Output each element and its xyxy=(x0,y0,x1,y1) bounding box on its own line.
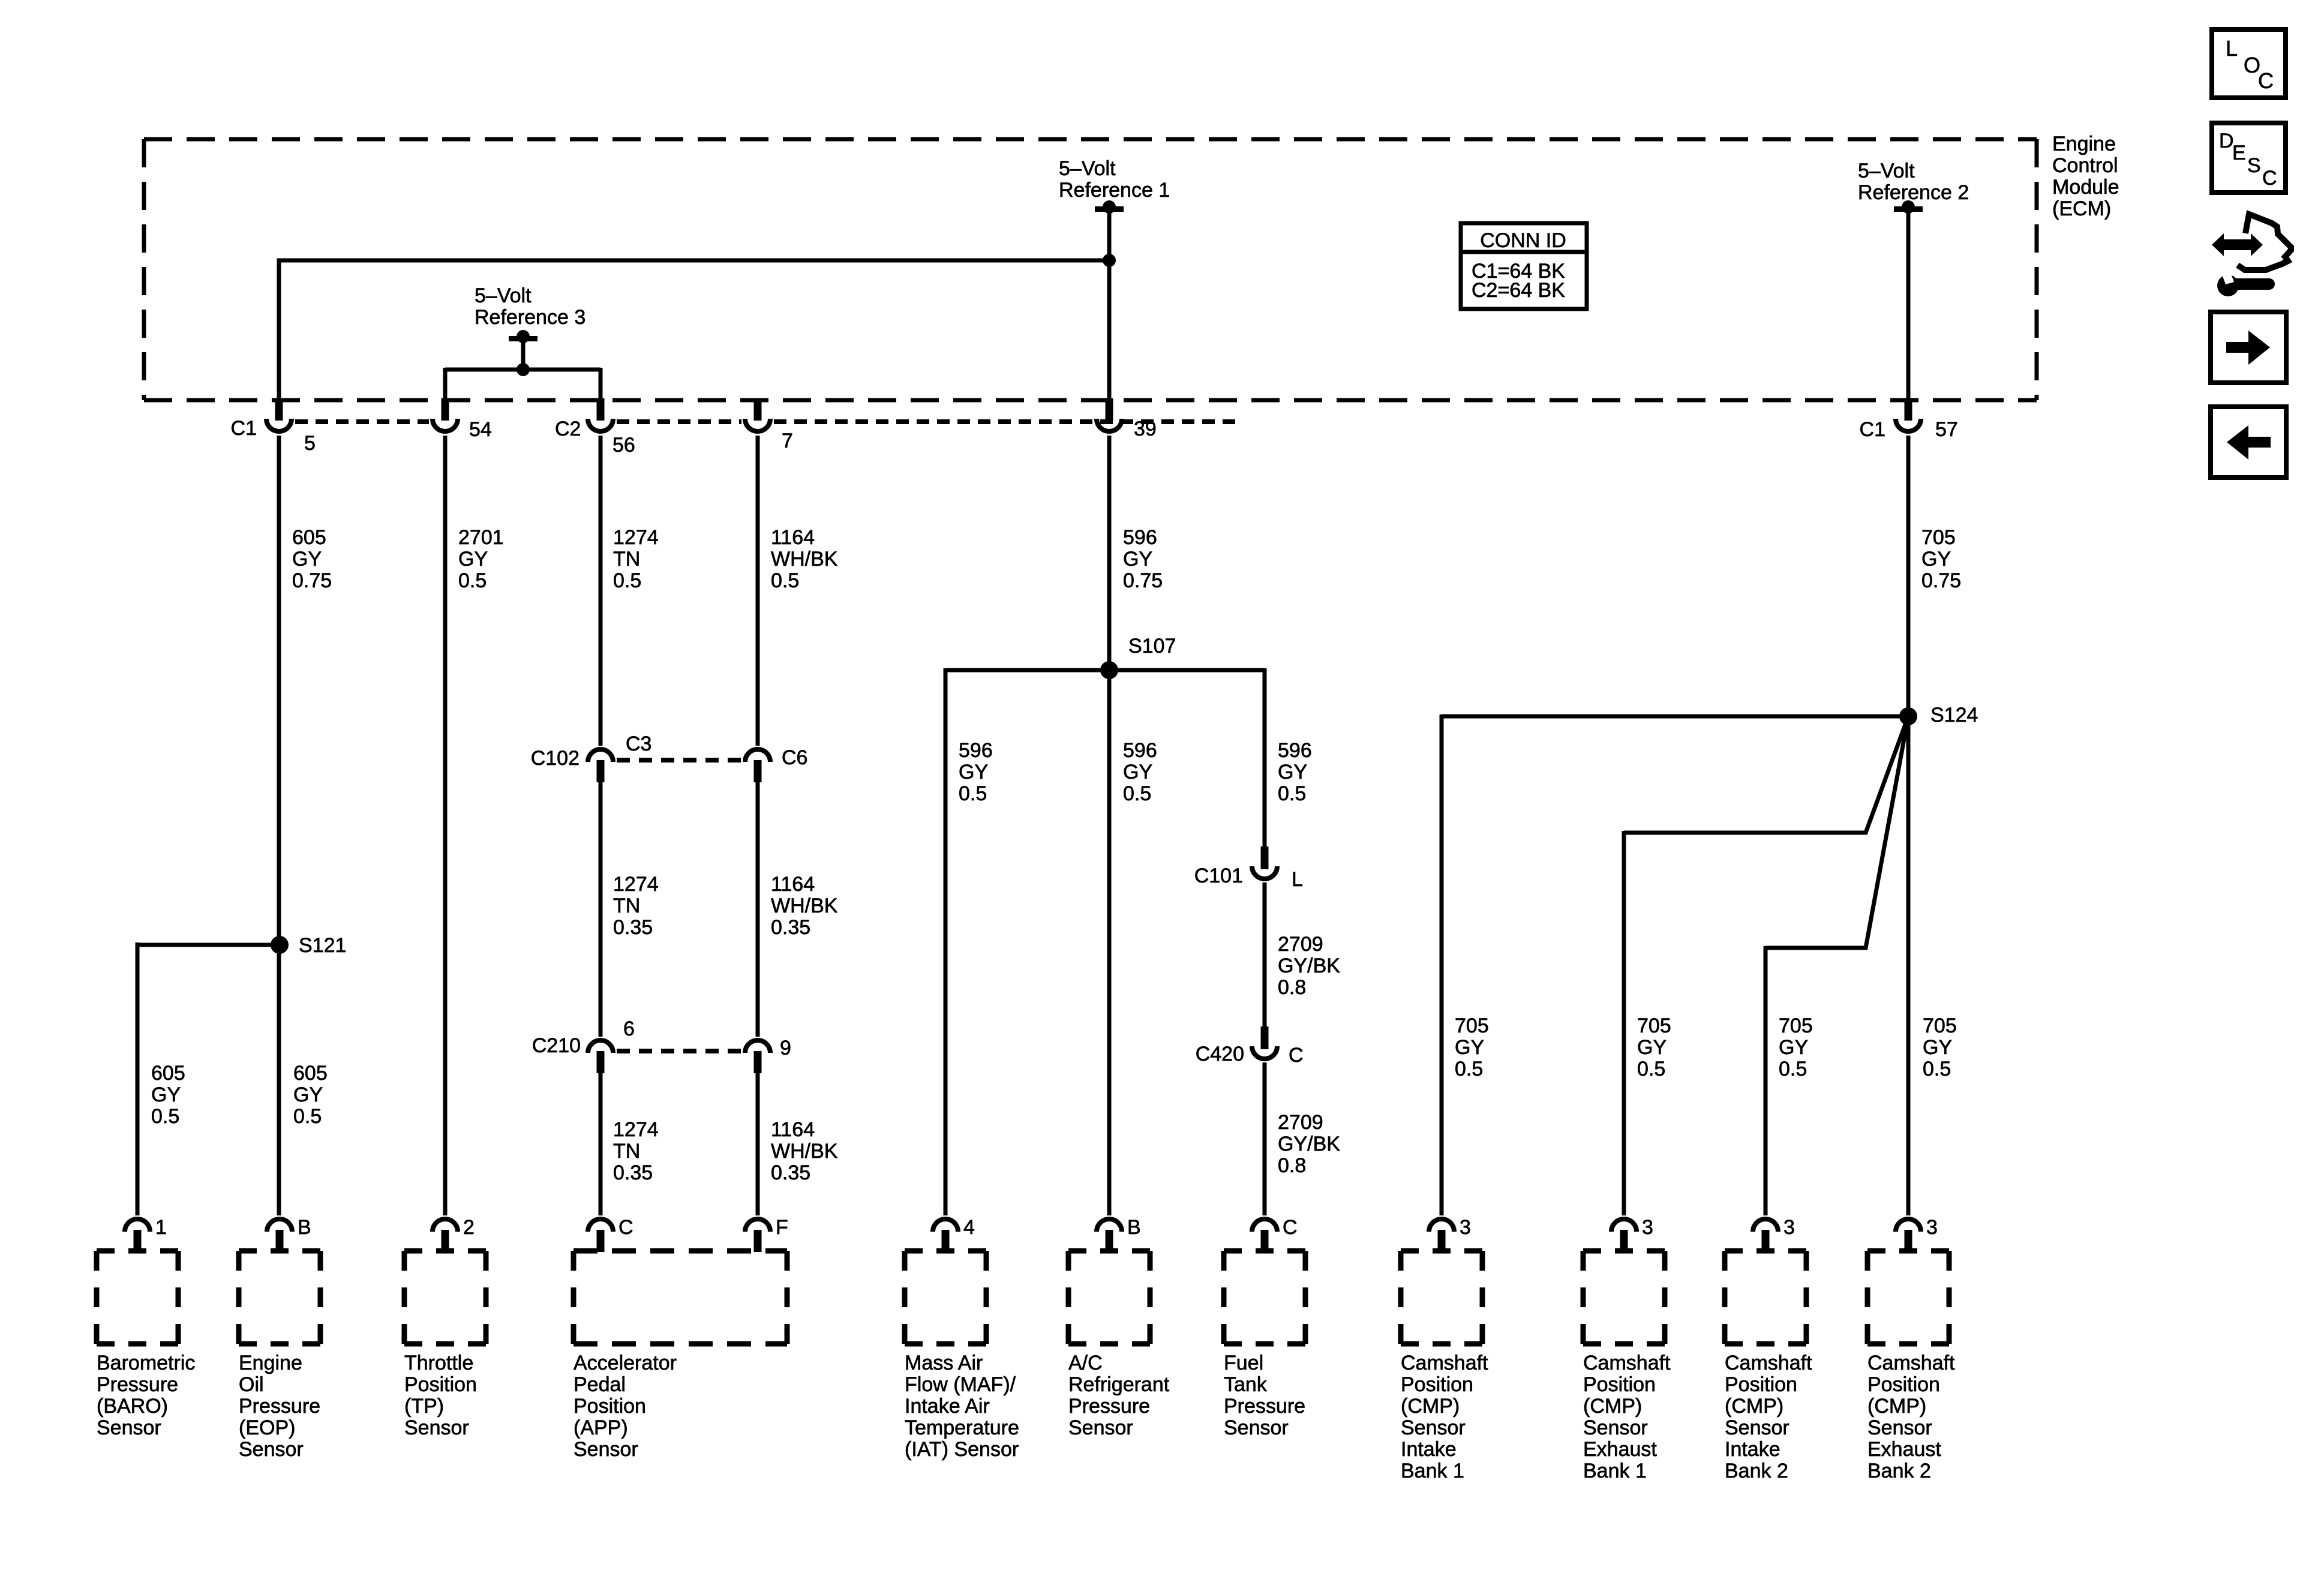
svg-text:Position: Position xyxy=(1867,1373,1940,1396)
svg-text:GY/BK: GY/BK xyxy=(1278,1133,1340,1155)
svg-text:Sensor: Sensor xyxy=(574,1438,638,1461)
svg-text:Sensor: Sensor xyxy=(1583,1416,1648,1439)
node junction at Ref3 xyxy=(517,363,530,376)
svg-text:0.5: 0.5 xyxy=(613,569,641,592)
sensor pin B at x=466 (dome+stub) xyxy=(267,1219,292,1252)
label C (C420 pin) xyxy=(1289,1044,1304,1067)
svg-text:D: D xyxy=(2219,130,2234,152)
pin label C xyxy=(618,1216,633,1239)
wire label 1164 WH/BK 0.35 (mid) xyxy=(771,873,838,939)
sensor pin 2 at x=742 (dome+stub) xyxy=(433,1219,458,1252)
svg-text:3: 3 xyxy=(1460,1216,1471,1239)
svg-text:(CMP): (CMP) xyxy=(1725,1395,1783,1418)
icon DESC box xyxy=(2212,123,2286,193)
svg-text:Camshaft: Camshaft xyxy=(1725,1352,1812,1374)
svg-text:Intake: Intake xyxy=(1401,1438,1457,1461)
svg-text:0.35: 0.35 xyxy=(771,916,810,939)
svg-text:1274: 1274 xyxy=(613,873,659,896)
caption APP xyxy=(574,1352,677,1461)
svg-text:Pressure: Pressure xyxy=(97,1373,178,1396)
CMP Sensor Intake Bank 1 box xyxy=(1401,1251,1482,1344)
icon forward arrow box xyxy=(2211,312,2286,383)
svg-text:(APP): (APP) xyxy=(574,1416,628,1439)
wire label 705 GY 0.5 (I1) xyxy=(1455,1014,1489,1080)
connector C210/6 (dome+stub) xyxy=(588,1040,613,1073)
svg-text:0.8: 0.8 xyxy=(1278,976,1306,999)
svg-text:C3: C3 xyxy=(626,733,651,755)
svg-text:Sensor: Sensor xyxy=(1068,1416,1133,1439)
sensor pin C at x=2108 (dome+stub) xyxy=(1252,1219,1277,1252)
svg-text:0.5: 0.5 xyxy=(771,569,799,592)
svg-text:4: 4 xyxy=(963,1216,975,1239)
svg-text:705: 705 xyxy=(1923,1014,1957,1037)
svg-text:Intake Air: Intake Air xyxy=(905,1395,990,1418)
splice S107 xyxy=(1100,661,1118,679)
svg-text:Camshaft: Camshaft xyxy=(1401,1352,1488,1374)
svg-text:Bank 2: Bank 2 xyxy=(1725,1460,1788,1482)
wire S124 branch CMP intake bank2 xyxy=(1765,716,1908,1215)
svg-text:0.5: 0.5 xyxy=(1923,1058,1951,1080)
label 9 xyxy=(780,1037,791,1059)
Accelerator Pedal Position (APP) Sensor box xyxy=(574,1251,787,1344)
svg-text:596: 596 xyxy=(1123,526,1157,549)
label C101 xyxy=(1194,864,1243,887)
wire label 596 GY 0.75 xyxy=(1123,526,1163,592)
sensor pin 3 at x=3181 (dome+stub) xyxy=(1896,1219,1921,1252)
wire APP-C from pin 56 xyxy=(599,436,603,746)
wire label 605 GY 0.5 (BARO) xyxy=(151,1062,185,1128)
wire Ref3 horizontal xyxy=(445,368,600,400)
wire label 605 GY 0.75 xyxy=(292,526,332,592)
node junction at Ref1 xyxy=(1103,254,1116,267)
pin label C1 (left) xyxy=(231,417,257,440)
svg-text:0.5: 0.5 xyxy=(1455,1058,1483,1080)
svg-text:Accelerator: Accelerator xyxy=(574,1352,677,1374)
ECM connector pin 54 (stub+arc) xyxy=(433,398,458,431)
CMP Sensor Exhaust Bank 1 box xyxy=(1583,1251,1665,1344)
caption CMP E1 xyxy=(1583,1352,1671,1482)
svg-text:Sensor: Sensor xyxy=(1224,1416,1289,1439)
5-Volt Reference 3 symbol xyxy=(509,330,538,343)
connector C420 (stub+cup) xyxy=(1252,1026,1277,1059)
pin label 3 xyxy=(1926,1216,1938,1239)
pin number 7 xyxy=(782,430,793,452)
svg-text:GY: GY xyxy=(151,1083,181,1106)
svg-text:705: 705 xyxy=(1637,1014,1671,1037)
svg-text:705: 705 xyxy=(1779,1014,1813,1037)
icon harness outline xyxy=(2238,214,2291,270)
wire 5-Volt Ref 3 vertical xyxy=(521,340,526,370)
thin dashed connector line C1 xyxy=(295,419,1236,424)
svg-text:TN: TN xyxy=(613,894,640,917)
label C420 xyxy=(1196,1043,1244,1065)
svg-text:GY: GY xyxy=(1637,1036,1667,1059)
svg-text:Sensor: Sensor xyxy=(239,1438,304,1461)
pin label 3 xyxy=(1460,1216,1471,1239)
svg-text:0.5: 0.5 xyxy=(1278,782,1306,805)
svg-text:S: S xyxy=(2247,154,2261,177)
wire APP-C lower xyxy=(599,1071,603,1215)
svg-text:0.8: 0.8 xyxy=(1278,1154,1306,1177)
svg-text:596: 596 xyxy=(959,739,993,762)
svg-text:54: 54 xyxy=(469,418,492,441)
svg-text:TN: TN xyxy=(613,548,640,571)
svg-text:0.5: 0.5 xyxy=(1637,1058,1665,1080)
svg-text:Reference 3: Reference 3 xyxy=(475,306,585,329)
svg-text:Position: Position xyxy=(1583,1373,1656,1396)
ECM connector pin 57 (stub+arc) xyxy=(1896,398,1921,431)
connector C101 (stub+cup) xyxy=(1252,846,1277,879)
svg-text:Camshaft: Camshaft xyxy=(1583,1352,1671,1374)
A/C Refrigerant Pressure Sensor box xyxy=(1068,1251,1150,1344)
svg-text:(ECM): (ECM) xyxy=(2052,197,2111,220)
wire label 605 GY 0.5 (EOP) xyxy=(293,1062,328,1128)
svg-text:39: 39 xyxy=(1134,418,1157,440)
label 6 xyxy=(623,1017,635,1040)
svg-text:Position: Position xyxy=(574,1395,646,1418)
sensor pin 3 at x=2707 (dome+stub) xyxy=(1611,1219,1637,1252)
svg-text:Bank 1: Bank 1 xyxy=(1583,1460,1647,1482)
svg-text:S107: S107 xyxy=(1128,635,1176,658)
svg-text:596: 596 xyxy=(1278,739,1312,762)
svg-text:1164: 1164 xyxy=(771,1118,815,1141)
svg-text:1274: 1274 xyxy=(613,1118,659,1141)
ECM connector pin 7 (stub+arc) xyxy=(745,398,770,431)
Barometric Pressure (BARO) Sensor box xyxy=(97,1251,178,1344)
caption CMP I1 xyxy=(1401,1352,1488,1482)
wire label 2701 GY 0.5 xyxy=(458,526,504,592)
wire label 596 GY 0.5 (AC) xyxy=(1123,739,1157,805)
svg-text:Reference 1: Reference 1 xyxy=(1059,179,1170,202)
wire APP-F from pin 7 xyxy=(756,436,760,746)
svg-text:Engine: Engine xyxy=(2052,133,2116,155)
pin label 3 xyxy=(1642,1216,1653,1239)
svg-text:0.5: 0.5 xyxy=(151,1105,179,1128)
svg-text:2709: 2709 xyxy=(1278,933,1323,956)
sensor pin 4 at x=1576 (dome+stub) xyxy=(933,1219,958,1252)
svg-text:Pressure: Pressure xyxy=(1068,1395,1150,1418)
svg-text:Engine: Engine xyxy=(239,1352,302,1374)
svg-text:Intake: Intake xyxy=(1725,1438,1780,1461)
svg-text:C1: C1 xyxy=(1860,418,1885,441)
svg-text:1164: 1164 xyxy=(771,873,815,896)
Fuel Tank Pressure Sensor box xyxy=(1224,1251,1305,1344)
wire APP-C mid xyxy=(599,780,603,1037)
svg-text:Camshaft: Camshaft xyxy=(1867,1352,1955,1374)
svg-text:Position: Position xyxy=(1725,1373,1797,1396)
svg-text:S124: S124 xyxy=(1930,704,1978,727)
svg-text:C210: C210 xyxy=(532,1034,581,1057)
svg-text:596: 596 xyxy=(1123,739,1157,762)
svg-text:1: 1 xyxy=(155,1216,167,1239)
svg-text:(TP): (TP) xyxy=(404,1395,444,1418)
svg-text:Bank 1: Bank 1 xyxy=(1401,1460,1464,1482)
svg-text:0.5: 0.5 xyxy=(293,1105,322,1128)
svg-text:C: C xyxy=(2258,68,2274,93)
svg-text:9: 9 xyxy=(780,1037,791,1059)
svg-text:GY: GY xyxy=(1123,548,1152,571)
label C3 xyxy=(626,733,651,755)
Throttle Position (TP) Sensor box xyxy=(404,1251,486,1344)
label S107 xyxy=(1128,635,1176,658)
svg-text:Sensor: Sensor xyxy=(1867,1416,1932,1439)
svg-text:Temperature: Temperature xyxy=(905,1416,1019,1439)
pin label 2 xyxy=(463,1216,475,1239)
5-Volt Reference 1 label xyxy=(1059,157,1170,202)
pin number 56 xyxy=(612,434,635,457)
ECM connector pin 5 (stub+arc) xyxy=(266,398,292,431)
svg-text:GY: GY xyxy=(1455,1036,1484,1059)
wire S107 horizontal xyxy=(945,668,1265,1215)
Engine Oil Pressure (EOP) Sensor box xyxy=(239,1251,320,1344)
pin label B xyxy=(1127,1216,1141,1239)
svg-text:F: F xyxy=(776,1216,788,1239)
svg-text:C: C xyxy=(1289,1044,1304,1067)
label L xyxy=(1292,868,1303,891)
svg-text:5–Volt: 5–Volt xyxy=(1858,160,1915,182)
caption fuel tank xyxy=(1224,1352,1305,1439)
svg-text:Barometric: Barometric xyxy=(97,1352,195,1374)
icon LOC box xyxy=(2212,29,2286,98)
svg-text:(IAT) Sensor: (IAT) Sensor xyxy=(905,1438,1019,1461)
wire label 1164 WH/BK 0.5 xyxy=(771,526,838,592)
label S121 xyxy=(299,934,346,957)
svg-text:56: 56 xyxy=(612,434,635,457)
svg-text:(CMP): (CMP) xyxy=(1867,1395,1926,1418)
wire label 705 GY 0.5 (I2) xyxy=(1779,1014,1813,1080)
svg-text:Exhaust: Exhaust xyxy=(1867,1438,1941,1461)
caption MAF/IAT xyxy=(905,1352,1019,1461)
pin number 54 xyxy=(469,418,492,441)
svg-text:Reference 2: Reference 2 xyxy=(1858,181,1969,204)
svg-text:Mass Air: Mass Air xyxy=(905,1352,983,1374)
svg-text:0.5: 0.5 xyxy=(959,782,987,805)
svg-text:GY: GY xyxy=(458,548,488,571)
wire S124 branch CMP intake bank1 xyxy=(1442,715,1908,1215)
svg-text:Control: Control xyxy=(2052,154,2118,177)
dashed line C3-C6 xyxy=(617,758,741,763)
wire label 596 GY 0.5 (fuel) xyxy=(1278,739,1312,805)
icon double arrow xyxy=(2212,233,2263,256)
svg-text:605: 605 xyxy=(292,526,326,549)
wire label 705 GY 0.5 (E2) xyxy=(1923,1014,1957,1080)
svg-text:CONN ID: CONN ID xyxy=(1480,229,1566,252)
sensor pin 3 at x=2943 (dome+stub) xyxy=(1753,1219,1778,1252)
svg-text:WH/BK: WH/BK xyxy=(771,1140,838,1163)
icon wrench xyxy=(2217,271,2275,296)
5-Volt Reference 2 label xyxy=(1858,160,1969,204)
svg-text:C6: C6 xyxy=(782,746,807,769)
CONN ID table xyxy=(1461,223,1587,309)
svg-text:L: L xyxy=(2226,36,2238,61)
svg-text:2: 2 xyxy=(463,1216,475,1239)
wire BARO/EOP from pin 5 xyxy=(277,436,281,1215)
wire label 705 GY 0.75 xyxy=(1921,526,1961,592)
label C102 xyxy=(531,747,580,770)
connector 9 (dome+stub) xyxy=(745,1040,770,1073)
wire 39 to S107 xyxy=(1107,436,1112,1215)
svg-text:Sensor: Sensor xyxy=(97,1416,161,1439)
svg-text:Throttle: Throttle xyxy=(404,1352,473,1374)
ECM connector pin 56 (stub+arc) xyxy=(588,398,613,431)
svg-text:3: 3 xyxy=(1642,1216,1653,1239)
splice S124 xyxy=(1899,707,1917,725)
5-Volt Reference 2 symbol xyxy=(1894,200,1923,214)
Mass Air Flow / IAT Sensor box xyxy=(905,1251,986,1344)
5-Volt Reference 1 symbol xyxy=(1095,200,1124,214)
svg-text:GY/BK: GY/BK xyxy=(1278,954,1340,977)
svg-text:Oil: Oil xyxy=(239,1373,264,1396)
svg-text:B: B xyxy=(298,1216,311,1239)
svg-text:2701: 2701 xyxy=(458,526,504,549)
svg-text:0.35: 0.35 xyxy=(613,1161,653,1184)
svg-text:B: B xyxy=(1127,1216,1141,1239)
ECM label xyxy=(2052,133,2119,220)
svg-text:GY: GY xyxy=(1278,761,1307,784)
svg-text:Module: Module xyxy=(2052,176,2119,199)
svg-text:Sensor: Sensor xyxy=(404,1416,469,1439)
svg-text:0.5: 0.5 xyxy=(1779,1058,1807,1080)
pin label C2 xyxy=(555,418,581,440)
svg-text:(EOP): (EOP) xyxy=(239,1416,295,1439)
wire APP-F mid xyxy=(756,780,760,1037)
svg-text:GY: GY xyxy=(1921,548,1951,571)
svg-text:(BARO): (BARO) xyxy=(97,1395,168,1418)
label S124 xyxy=(1930,704,1978,727)
caption TP xyxy=(404,1352,477,1439)
svg-text:GY: GY xyxy=(1123,761,1152,784)
caption BARO xyxy=(97,1352,195,1439)
wire label 2709 GY/BK 0.8 (lower) xyxy=(1278,1111,1340,1177)
svg-text:0.35: 0.35 xyxy=(771,1161,810,1184)
wire S121 branch to BARO xyxy=(136,942,280,1215)
pin label C1 (right) xyxy=(1860,418,1885,441)
connector C6 (dome+stub) xyxy=(745,749,770,782)
wire C420 to fuel sensor xyxy=(1263,1062,1267,1215)
svg-text:5: 5 xyxy=(304,432,316,455)
svg-text:C420: C420 xyxy=(1196,1043,1244,1065)
wire 5-Volt Ref 2 vertical xyxy=(1906,210,1911,400)
wire C101 to C420 xyxy=(1263,882,1267,1028)
svg-text:GY: GY xyxy=(1779,1036,1808,1059)
caption CMP I2 xyxy=(1725,1352,1812,1482)
wire label 1274 TN 0.35 (mid) xyxy=(613,873,659,939)
wire APP-F lower xyxy=(756,1071,760,1215)
wire TP from pin 54 xyxy=(443,436,448,1215)
wire label 1274 TN 0.5 xyxy=(613,526,659,592)
sensor pin 3 at x=2403 (dome+stub) xyxy=(1429,1219,1454,1252)
svg-text:(CMP): (CMP) xyxy=(1583,1395,1642,1418)
5-Volt Reference 3 label xyxy=(475,284,585,329)
wire label 705 GY 0.5 (E1) xyxy=(1637,1014,1671,1080)
svg-text:C: C xyxy=(618,1216,633,1239)
svg-text:0.75: 0.75 xyxy=(1123,569,1163,592)
svg-text:1274: 1274 xyxy=(613,526,659,549)
pin label C xyxy=(1283,1216,1298,1239)
svg-text:Position: Position xyxy=(404,1373,477,1396)
svg-text:6: 6 xyxy=(623,1017,635,1040)
sensor pin F at x=1263 (dome+stub) xyxy=(745,1219,770,1252)
svg-text:S121: S121 xyxy=(299,934,346,957)
svg-text:3: 3 xyxy=(1783,1216,1795,1239)
svg-text:GY: GY xyxy=(292,548,322,571)
label C210 xyxy=(532,1034,581,1057)
wire label 596 GY 0.5 (MAF) xyxy=(959,739,993,805)
svg-text:0.5: 0.5 xyxy=(458,569,487,592)
svg-text:TN: TN xyxy=(613,1140,640,1163)
pin number 57 xyxy=(1935,418,1958,441)
svg-text:Position: Position xyxy=(1401,1373,1473,1396)
wire label 1164 WH/BK 0.35 (lower) xyxy=(771,1118,838,1184)
svg-text:Exhaust: Exhaust xyxy=(1583,1438,1657,1461)
svg-text:2709: 2709 xyxy=(1278,1111,1323,1134)
svg-text:E: E xyxy=(2232,142,2246,164)
svg-text:Tank: Tank xyxy=(1224,1373,1268,1396)
svg-text:1164: 1164 xyxy=(771,526,815,549)
pin number 39 xyxy=(1134,418,1157,440)
svg-text:(CMP): (CMP) xyxy=(1401,1395,1460,1418)
svg-text:C2: C2 xyxy=(555,418,581,440)
svg-text:WH/BK: WH/BK xyxy=(771,894,838,917)
svg-text:57: 57 xyxy=(1935,418,1958,441)
svg-text:C1: C1 xyxy=(231,417,257,440)
svg-text:L: L xyxy=(1292,868,1303,891)
caption EOP xyxy=(239,1352,320,1461)
svg-text:Refrigerant: Refrigerant xyxy=(1068,1373,1170,1396)
svg-text:C101: C101 xyxy=(1194,864,1243,887)
svg-text:GY: GY xyxy=(1923,1036,1952,1059)
svg-text:WH/BK: WH/BK xyxy=(771,548,838,571)
svg-text:Pressure: Pressure xyxy=(239,1395,320,1418)
dashed line 6-9 xyxy=(617,1049,741,1053)
svg-text:C: C xyxy=(2262,167,2277,190)
CMP Sensor Exhaust Bank 2 box xyxy=(1867,1251,1949,1344)
CMP Sensor Intake Bank 2 box xyxy=(1725,1251,1806,1344)
wire S124 branch CMP exhaust bank1 xyxy=(1624,716,1908,1215)
pin label 3 xyxy=(1783,1216,1795,1239)
svg-text:705: 705 xyxy=(1455,1014,1489,1037)
label C6 xyxy=(782,746,807,769)
wire 5-Volt Ref 1 vertical xyxy=(1107,210,1112,400)
svg-text:Bank 2: Bank 2 xyxy=(1867,1460,1931,1482)
svg-text:605: 605 xyxy=(151,1062,185,1085)
caption AC refrigerant xyxy=(1068,1352,1170,1439)
svg-text:Sensor: Sensor xyxy=(1401,1416,1466,1439)
svg-text:GY: GY xyxy=(959,761,988,784)
svg-text:5–Volt: 5–Volt xyxy=(475,284,532,307)
svg-text:0.35: 0.35 xyxy=(613,916,653,939)
wire label 1274 TN 0.35 (lower) xyxy=(613,1118,659,1184)
svg-text:0.75: 0.75 xyxy=(1921,569,1961,592)
ECM connector pin 39 (stub+arc) xyxy=(1097,398,1122,431)
svg-text:3: 3 xyxy=(1926,1216,1938,1239)
pin label F xyxy=(776,1216,788,1239)
svg-text:Pedal: Pedal xyxy=(574,1373,626,1396)
svg-text:705: 705 xyxy=(1921,526,1956,549)
svg-text:Pressure: Pressure xyxy=(1224,1395,1305,1418)
svg-text:0.75: 0.75 xyxy=(292,569,332,592)
pin label 4 xyxy=(963,1216,975,1239)
svg-text:0.5: 0.5 xyxy=(1123,782,1151,805)
splice S121 xyxy=(271,936,289,954)
svg-text:C: C xyxy=(1283,1216,1298,1239)
svg-text:C102: C102 xyxy=(531,747,580,770)
Engine Control Module (ECM) dashed box xyxy=(144,139,2037,400)
wire horizontal to C1 pin 5 xyxy=(277,259,1109,400)
svg-text:GY: GY xyxy=(293,1083,323,1106)
connector C102/C3 (dome+stub) xyxy=(588,749,613,782)
pin label 1 xyxy=(155,1216,167,1239)
